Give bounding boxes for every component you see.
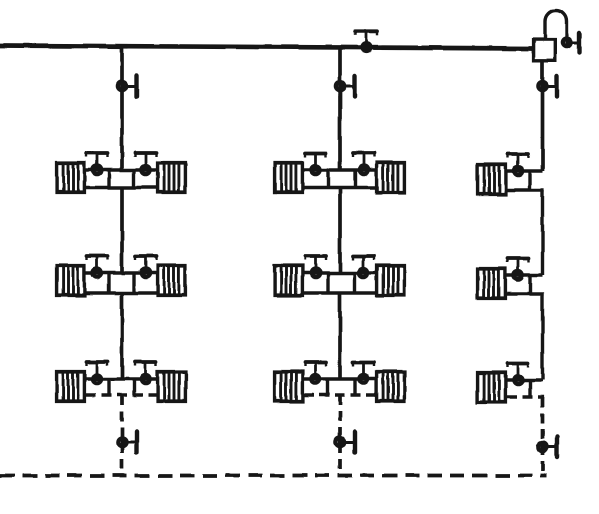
riser3 floor1 closing section bbox=[528, 171, 531, 190]
riser2 floor2 left radiator bbox=[273, 266, 304, 296]
riser1 riser return valve bbox=[118, 432, 137, 453]
riser3 riser segment bbox=[541, 294, 544, 380]
riser2 floor3 top connection pipe bbox=[304, 377, 375, 380]
riser2 floor1 bottom connection pipe bbox=[304, 186, 375, 189]
riser3 floor1 radiator bbox=[476, 165, 507, 195]
riser2 floor3 left radiator bbox=[273, 372, 304, 402]
supply main pipe bbox=[0, 46, 533, 49]
riser1 floor1 left radiator bbox=[55, 163, 86, 193]
riser1 floor3 bottom connection pipe (dashed) bbox=[86, 393, 156, 396]
air collector bbox=[534, 40, 555, 61]
riser3 floor1 top connection pipe bbox=[507, 169, 543, 172]
riser2 riser segment bbox=[338, 188, 342, 274]
riser1 riser upper section bbox=[120, 46, 124, 170]
return main pipe (dashed) bbox=[0, 474, 546, 478]
riser2 floor2 bottom connection pipe bbox=[304, 291, 375, 294]
riser1 floor1 bypass left segment bbox=[107, 170, 110, 188]
riser1 floor1 right radiator valve bbox=[135, 152, 156, 174]
riser3 isolation valve bbox=[538, 76, 557, 97]
riser1 floor3 bypass left segment bbox=[107, 379, 110, 395]
riser1 riser segment bbox=[120, 293, 124, 379]
riser2 floor2 top connection pipe bbox=[304, 271, 375, 274]
riser2 riser upper section bbox=[338, 47, 342, 170]
riser1 floor1 bypass right segment bbox=[132, 170, 135, 188]
air vent loop pipe bbox=[545, 10, 567, 40]
riser1 floor3 left radiator bbox=[55, 372, 86, 402]
riser3 floor2 top connection pipe bbox=[507, 273, 543, 276]
riser1 floor3 top connection pipe bbox=[86, 377, 156, 380]
riser1 riser segment bbox=[120, 188, 124, 274]
riser3 floor2 radiator bbox=[476, 269, 507, 299]
riser2 riser return section (dashed) bbox=[338, 395, 342, 475]
riser1 floor3 bypass right segment bbox=[132, 379, 135, 395]
riser2 floor1 left radiator bbox=[273, 163, 304, 193]
riser2 floor2 left radiator valve bbox=[305, 255, 326, 277]
riser1 riser isolation valve bbox=[118, 76, 137, 97]
riser2 floor3 right radiator bbox=[375, 372, 406, 402]
riser3 upper section bbox=[541, 61, 545, 171]
riser2 riser segment bbox=[338, 293, 342, 379]
riser1 floor3 right radiator bbox=[156, 372, 187, 402]
air vent valve bbox=[562, 33, 579, 53]
riser3 riser segment bbox=[541, 190, 544, 275]
riser2 riser isolation valve bbox=[336, 76, 355, 97]
riser1 floor3 left radiator valve bbox=[87, 361, 108, 383]
riser2 floor1 right radiator bbox=[375, 163, 406, 193]
riser3 floor2 radiator valve bbox=[508, 257, 529, 279]
riser1 floor2 bypass left segment bbox=[107, 273, 110, 293]
riser1 floor2 right radiator valve bbox=[135, 255, 156, 277]
riser3 floor2 bottom connection pipe bbox=[507, 292, 544, 295]
riser2 floor1 right radiator valve bbox=[353, 152, 374, 174]
riser1 floor2 top connection pipe bbox=[86, 271, 156, 274]
riser2 riser return valve bbox=[336, 432, 355, 453]
riser3 return valve bbox=[538, 437, 557, 458]
riser1 floor2 bottom connection pipe bbox=[86, 291, 156, 294]
riser1 floor1 bottom connection pipe bbox=[86, 186, 156, 189]
riser1 floor2 right radiator bbox=[156, 266, 187, 296]
riser2 floor1 bypass right segment bbox=[353, 170, 356, 188]
riser2 floor2 bypass right segment bbox=[353, 273, 356, 293]
riser1 floor1 right radiator bbox=[156, 163, 187, 193]
riser3 floor1 radiator valve bbox=[508, 153, 529, 175]
riser3 floor3 radiator bbox=[476, 373, 507, 403]
riser1 floor1 left radiator valve bbox=[87, 152, 108, 174]
main line valve V1 bbox=[355, 30, 377, 51]
riser3 floor3 top connection pipe bbox=[507, 378, 543, 381]
riser3 floor3 closing section bbox=[528, 380, 531, 397]
riser3 floor2 closing section bbox=[528, 275, 531, 294]
riser1 floor2 left radiator valve bbox=[87, 255, 108, 277]
riser2 floor2 right radiator valve bbox=[353, 255, 374, 277]
riser1 floor2 left radiator bbox=[55, 266, 86, 296]
riser2 floor1 bypass left segment bbox=[326, 170, 329, 188]
riser3 floor3 bottom connection pipe (dashed) bbox=[507, 395, 544, 398]
riser1 floor2 bypass right segment bbox=[132, 273, 135, 293]
riser3 floor1 bottom connection pipe bbox=[507, 188, 544, 191]
riser2 floor3 bottom connection pipe (dashed) bbox=[304, 393, 375, 396]
riser2 floor1 top connection pipe bbox=[304, 168, 375, 171]
riser1 floor3 right radiator valve bbox=[135, 361, 156, 383]
riser2 floor2 right radiator bbox=[375, 266, 406, 296]
riser2 floor3 bypass right segment bbox=[353, 379, 356, 395]
riser3 floor3 radiator valve bbox=[508, 362, 529, 384]
riser2 floor3 right radiator valve bbox=[353, 361, 374, 383]
riser2 floor3 left radiator valve bbox=[305, 361, 326, 383]
riser1 floor1 top connection pipe bbox=[86, 168, 156, 171]
riser2 floor2 bypass left segment bbox=[326, 273, 329, 293]
riser2 floor1 left radiator valve bbox=[305, 152, 326, 174]
riser1 riser return section (dashed) bbox=[120, 395, 124, 475]
riser2 floor3 bypass left segment bbox=[326, 379, 329, 395]
riser3 return section (dashed) bbox=[541, 397, 545, 475]
